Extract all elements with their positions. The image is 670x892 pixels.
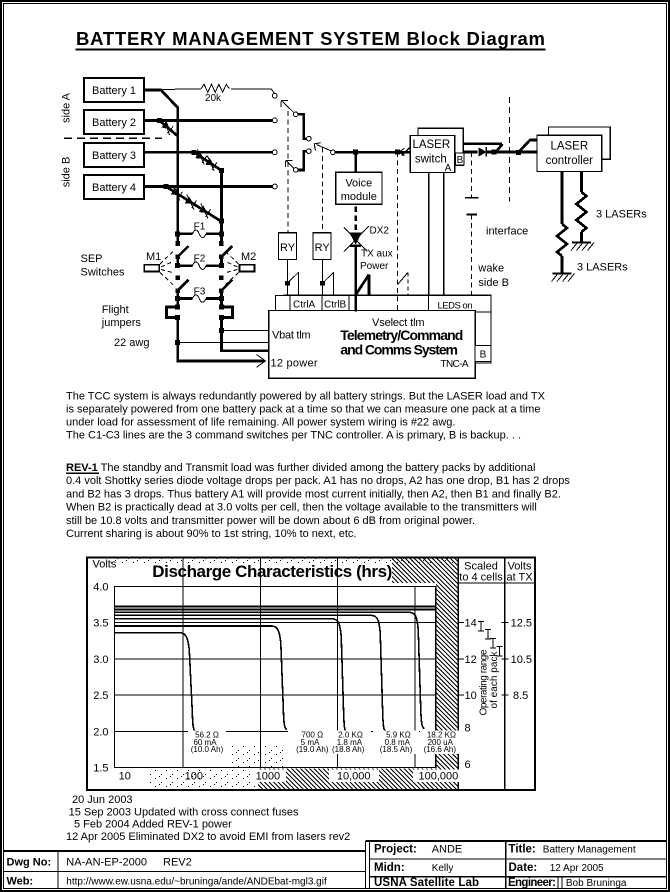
svg-text:2.5: 2.5 [93, 690, 108, 702]
laser resistor left [557, 224, 567, 256]
x label bg 10000 [329, 770, 379, 783]
battery symbol short plate [466, 214, 477, 216]
svg-text:REV-1 The standby and Transmi: REV-1 The standby and Transmit load was … [66, 462, 535, 474]
LASER switch drop line A [428, 173, 430, 296]
right bus segment F2-F3 [220, 290, 223, 299]
label SEP Switches [81, 253, 126, 279]
left table row line [3, 870, 366, 872]
LASER controller front box [537, 135, 602, 171]
chart hatch title band [392, 559, 458, 584]
svg-text:controller: controller [546, 155, 593, 167]
arrowhead 12 power [257, 355, 266, 368]
svg-text:CtrlB: CtrlB [324, 300, 347, 311]
wire battery1 to left bus (diagonal) [161, 90, 178, 108]
wire battery4 out [144, 185, 272, 188]
discharge curve ref2 [115, 609, 436, 611]
chart hatch right band [436, 583, 458, 789]
voice module drop wire [354, 152, 357, 172]
Vselect flag dashed vertical [407, 273, 409, 296]
REV-1 underline [66, 473, 99, 474]
chart speckle bottom band [150, 769, 258, 789]
header Volts at TX [506, 561, 533, 584]
svg-text:still be 10.8 volts and trans: still be 10.8 volts and transmitter powe… [66, 515, 475, 527]
SEP switch left upper [175, 241, 188, 259]
svg-text:2.0: 2.0 [93, 726, 108, 738]
svg-text:RY: RY [315, 242, 331, 254]
right table row line 2 [369, 876, 667, 878]
battery box Battery 3 [84, 143, 144, 167]
right table top line [366, 840, 667, 842]
load label 2.0K [332, 731, 365, 755]
ctrl strip dividers [290, 295, 349, 310]
selector switch SwA blade [283, 102, 294, 113]
chart column divider scaled [457, 558, 459, 791]
output top wire (B path) [463, 142, 502, 145]
resistor 20k wire [161, 89, 275, 94]
svg-text:side B: side B [61, 157, 73, 188]
svg-text:Current sharing is about 90% t: Current sharing is about 90% to 1st stri… [66, 528, 356, 540]
actuator M1 linkage dashes [160, 250, 175, 287]
SEP switch right upper [219, 241, 232, 259]
contact circle battery3 [272, 150, 277, 155]
discharge curve ref1 [115, 606, 436, 608]
scaled tick 12 [458, 658, 464, 660]
LASER switch B tag box [456, 153, 465, 165]
RY1 control dashed line [287, 111, 289, 233]
svg-text:SEP: SEP [81, 253, 103, 265]
voltsTX tick 10.5 [502, 658, 509, 660]
plot gridline h 2.5 [115, 694, 436, 696]
title underline [76, 49, 546, 51]
junction 22awg left [175, 340, 180, 345]
plot gridline v 1000 [259, 559, 261, 768]
plot gridline v 100 [182, 559, 184, 768]
svg-text:NA-AN-EP-2000: NA-AN-EP-2000 [66, 857, 147, 869]
TNC-B shadow box [284, 295, 491, 363]
svg-text:Battery 4: Battery 4 [92, 182, 136, 194]
svg-text:(19.0 Ah): (19.0 Ah) [296, 745, 329, 754]
battery box Battery 2 [84, 110, 144, 134]
scaled tick 14 [458, 622, 464, 624]
SwB output contact circle [307, 149, 312, 154]
left bus segment F2-F3 [176, 290, 179, 299]
laser chain right lower wire [580, 232, 583, 242]
svg-text:Power: Power [360, 261, 389, 272]
svg-text:3 LASERs: 3 LASERs [577, 262, 628, 274]
discharge curve 18.2K [115, 612, 425, 728]
selector switch SwB blade [286, 161, 294, 169]
svg-text:BATTERY MANAGEMENT SYSTEM Bloc: BATTERY MANAGEMENT SYSTEM Block Diagram [76, 28, 545, 49]
svg-text:at TX: at TX [506, 572, 533, 584]
svg-text:Battery 1: Battery 1 [92, 85, 136, 97]
SEP switch left lower [175, 276, 188, 293]
flight jumper left [167, 304, 181, 319]
chart top speckle strip [110, 559, 456, 564]
svg-text:(16.6 Ah): (16.6 Ah) [424, 745, 457, 754]
svg-text:CtrlA: CtrlA [293, 300, 316, 311]
discharge curve 56.2 [115, 633, 197, 732]
svg-text:1000: 1000 [256, 771, 280, 783]
RY2 output wire [322, 259, 324, 295]
wake dashed line [470, 152, 472, 295]
LASER switch drop line B [443, 173, 445, 296]
svg-text:Switches: Switches [81, 267, 126, 279]
svg-text:12 Apr 2005 Eliminated DX2 t: 12 Apr 2005 Eliminated DX2 to avoid EMI … [66, 831, 350, 843]
SwA output contact circle [307, 136, 312, 141]
chart header underline right columns [458, 582, 535, 584]
svg-text:DX2: DX2 [370, 226, 390, 237]
wire battery2 out [144, 119, 272, 122]
svg-text:LASER: LASER [412, 139, 450, 151]
laser resistor right [576, 192, 586, 232]
voltsTX tick 12.5 [502, 622, 509, 624]
svg-text:1.5: 1.5 [93, 763, 108, 775]
right bus vertical [220, 170, 223, 245]
svg-text:20 Jun 2003: 20 Jun 2003 [72, 794, 133, 806]
right bus lower vertical [220, 317, 223, 352]
svg-text:5 Feb 2004 Added REV-1 powe: 5 Feb 2004 Added REV-1 power [74, 819, 232, 831]
fuse F2 [175, 254, 224, 270]
stage2 switch arrowhead [314, 143, 321, 151]
svg-text:Kelly: Kelly [432, 863, 454, 874]
selector switch SwA arrowhead [281, 100, 288, 107]
svg-text:3 LASERs: 3 LASERs [596, 209, 647, 221]
svg-text:22 awg: 22 awg [114, 337, 149, 349]
label LASER controller [546, 141, 593, 168]
contact circle battery2 [272, 118, 277, 123]
load label bg 5.9K [373, 731, 419, 755]
left bus to jumper [176, 299, 179, 308]
right table double left border [366, 841, 370, 889]
svg-text:Volts: Volts [93, 559, 117, 571]
contact circle battery4 [272, 184, 277, 189]
diode branch battery3 to right bus [194, 152, 222, 170]
svg-text:side B: side B [478, 277, 509, 289]
svg-text:12: 12 [465, 654, 477, 666]
discharge curve 2.0K [115, 619, 348, 733]
main select bus [335, 151, 410, 154]
svg-text:side A: side A [61, 92, 73, 123]
svg-text:Battery 3: Battery 3 [92, 150, 136, 162]
actuator M2 linkage dashes [224, 250, 239, 287]
wire battery3 out [144, 151, 272, 154]
svg-text:TNC-A: TNC-A [441, 359, 469, 370]
junction right bus sense [219, 328, 224, 333]
label LASER switch [412, 139, 450, 166]
diode D-B1b [203, 156, 220, 171]
sense wire right bus to TNC Vbat [221, 330, 268, 332]
svg-text:The TCC system is always redun: The TCC system is always redundantly pow… [66, 391, 546, 403]
SEP switch right lower [219, 276, 232, 293]
side A/B dashed divider [64, 137, 162, 139]
chart column divider voltsTX [504, 558, 506, 791]
left bus lower vertical [176, 317, 179, 362]
selector switch SwB pivot [293, 168, 298, 173]
load label bg 18.2K [420, 731, 460, 755]
plot gridline h 3.0 [115, 658, 436, 660]
svg-text:When B2 is practically dead at: When B2 is practically dead at 3.0 volts… [66, 502, 537, 514]
load label 56.2 [191, 731, 224, 755]
junction voice drop [353, 150, 358, 155]
SwA output L-wire [298, 114, 307, 138]
discharge curve 5.9K [115, 615, 387, 731]
svg-text:LASER: LASER [550, 141, 588, 153]
error bar 2 [485, 630, 491, 640]
svg-text:10,000: 10,000 [337, 771, 371, 783]
RY1 output wire [286, 259, 288, 295]
svg-text:Dwg No:: Dwg No: [7, 857, 52, 869]
svg-text:Date:: Date: [509, 862, 538, 874]
svg-text:Title:: Title: [509, 844, 536, 856]
SwB output L-wire [298, 151, 307, 170]
junction right bus B4 [219, 218, 224, 223]
svg-text:14: 14 [465, 618, 477, 630]
diode branch battery2 to left bus [159, 120, 177, 136]
svg-text:Telemetry/Command: Telemetry/Command [340, 327, 463, 343]
svg-text:interface: interface [486, 226, 528, 238]
svg-text:F1: F1 [194, 222, 206, 233]
left bus segment F1-F2 [176, 257, 179, 266]
svg-text:switch: switch [415, 154, 447, 166]
LASER switch front box [410, 136, 455, 173]
fuse F1 [175, 222, 224, 238]
svg-text:100: 100 [185, 771, 203, 783]
LASER switch back box [418, 128, 463, 165]
top wire blade to junction [496, 144, 503, 152]
TNC B tag box [475, 345, 491, 361]
TX aux contact flag [356, 275, 369, 296]
left table column divider [57, 851, 59, 889]
svg-text:and B2 has 3 drops. Thus batt: and B2 has 3 drops. Thus battery A1 will… [66, 488, 561, 500]
svg-text:10: 10 [119, 771, 131, 783]
relay RY2 box [313, 233, 331, 260]
junction battery2 branch [157, 118, 162, 123]
svg-text:jumpers: jumpers [101, 317, 142, 329]
plot frame [115, 587, 436, 768]
left table top line [3, 850, 366, 852]
svg-text:M1: M1 [146, 251, 161, 263]
svg-text:ANDE: ANDE [432, 844, 463, 856]
output main wire [464, 151, 477, 154]
chart outer frame [87, 558, 535, 791]
svg-text:Midn:: Midn: [374, 862, 405, 874]
diode D-B2a [168, 186, 185, 201]
junction controller blade [516, 150, 521, 155]
svg-text:3.0: 3.0 [93, 654, 108, 666]
actuator M2 box [240, 265, 255, 272]
junction vselect [395, 150, 400, 155]
ctrl strip box [276, 295, 429, 310]
load label bg 56.2 [188, 731, 226, 755]
svg-text:REV2: REV2 [163, 857, 192, 869]
svg-text:15 Sep 2003 Updated with cros: 15 Sep 2003 Updated with cross connect f… [69, 806, 299, 818]
svg-text:6: 6 [465, 759, 471, 771]
svg-text:Engineer:: Engineer: [508, 877, 556, 889]
svg-text:wake: wake [477, 263, 504, 275]
diode branch battery4 to right bus [166, 187, 221, 222]
label Voice module [341, 178, 377, 204]
diode D-B1a [193, 149, 210, 164]
load label 700 [296, 731, 329, 755]
scaled tick 10 [458, 694, 464, 696]
laser chain left lower wire [561, 256, 564, 274]
svg-text:Vbat tlm: Vbat tlm [272, 330, 311, 342]
plot gridline v 100000 [414, 587, 416, 768]
junction battery4 branch [164, 184, 169, 189]
label Operating range of each pack (rotated) [479, 649, 501, 715]
svg-text:B: B [457, 155, 464, 166]
svg-text:Operating range: Operating range [479, 649, 490, 715]
svg-text:and Comms System: and Comms System [340, 342, 458, 358]
svg-text:4.0: 4.0 [93, 582, 108, 594]
resistor 20k [201, 84, 229, 92]
fuse F3 [175, 286, 224, 302]
chart speckle mid band [230, 745, 283, 767]
ground right [571, 243, 594, 251]
svg-text:Battery 2: Battery 2 [92, 117, 136, 129]
svg-text:M2: M2 [241, 251, 256, 263]
error bar 1 [478, 622, 484, 632]
plot gridline v 10000 [337, 559, 339, 768]
RY2 control dashed line [322, 148, 324, 233]
svg-text:3.5: 3.5 [93, 618, 108, 630]
svg-text:(18.8 Ah): (18.8 Ah) [332, 745, 365, 754]
voltsTX tick 8.5 [502, 694, 509, 696]
laser chain left wire [561, 172, 564, 225]
svg-text:Voice: Voice [345, 178, 372, 190]
header Scaled to 4 cells [459, 561, 503, 584]
selector switch SwB arrowhead [286, 160, 293, 167]
wire battery1 out [144, 89, 162, 92]
svg-text:http://www.ew.usna.edu/~brunin: http://www.ew.usna.edu/~bruninga/ande/AN… [66, 877, 327, 888]
TX aux power wire [354, 246, 357, 312]
svg-text:USNA Satellite Lab: USNA Satellite Lab [374, 877, 479, 889]
label Flight jumpers [101, 304, 142, 329]
svg-text:A: A [445, 163, 452, 174]
svg-text:F2: F2 [194, 254, 206, 265]
svg-text:module: module [341, 191, 377, 203]
load label 5.9K [380, 731, 413, 755]
plot gridline h 2.0 [115, 730, 436, 732]
selector switch SwA pivot [293, 112, 298, 117]
svg-text:12.5: 12.5 [511, 618, 532, 630]
diode main line [479, 147, 487, 157]
svg-text:The C1-C3 lines are the 3 comm: The C1-C3 lines are the 3 command switch… [66, 430, 521, 442]
svg-text:Bob Bruninga: Bob Bruninga [566, 878, 627, 889]
error bar 4 [496, 647, 502, 657]
svg-text:F3: F3 [194, 286, 206, 297]
DX2 dashed drop [354, 207, 357, 234]
svg-text:of each pack: of each pack [489, 651, 500, 709]
RY2 contact flag [320, 272, 334, 295]
svg-text:Project:: Project: [374, 844, 417, 856]
svg-text:100,000: 100,000 [419, 771, 459, 783]
left bus vertical [176, 107, 179, 245]
load label bg 2.0K [325, 731, 371, 755]
flight jumper right [219, 304, 233, 319]
svg-text:Battery Management: Battery Management [543, 845, 636, 856]
svg-text:8.5: 8.5 [513, 690, 528, 702]
svg-text:10.5: 10.5 [511, 654, 532, 666]
battery box Battery 1 [84, 78, 144, 102]
error bar 3 [490, 639, 496, 649]
stage2 pivot circle [331, 150, 336, 155]
DX2 crossed-out diode [344, 226, 369, 252]
svg-text:0.4 volt Shottky series diode: 0.4 volt Shottky series diode voltage dr… [66, 475, 570, 487]
TNC-A main box [269, 311, 476, 379]
contact circle battery1 [272, 93, 277, 98]
x label bg 1000 [250, 770, 286, 783]
right bus to jumper [220, 299, 223, 308]
svg-text:12 power: 12 power [271, 357, 318, 369]
svg-text:to 4 cells: to 4 cells [459, 572, 503, 584]
engineer cell dividers [558, 877, 562, 889]
svg-text:Flight: Flight [102, 304, 129, 316]
stage2 switch blade [317, 145, 331, 151]
Vselect contact flag [398, 273, 408, 285]
RY1 contact flag [285, 272, 298, 295]
svg-text:(18.5 Ah): (18.5 Ah) [380, 745, 413, 754]
svg-text:under load for assessment of l: under load for assessment of life remain… [66, 417, 455, 429]
laser chain right wire [580, 172, 583, 193]
LEDS cell [429, 295, 491, 312]
diode D-B2b [182, 194, 199, 209]
svg-text:8: 8 [465, 723, 471, 735]
svg-text:Discharge Characteristics (hrs: Discharge Characteristics (hrs) [152, 562, 392, 581]
svg-text:TX aux: TX aux [361, 249, 393, 260]
svg-text:is separately powered from one: is separately powered from one battery p… [66, 404, 540, 416]
power wire left bus to TNC 12 power [177, 360, 265, 363]
wire diode to junction [486, 151, 537, 154]
svg-text:LEDS on: LEDS on [438, 301, 473, 312]
svg-text:Web:: Web: [7, 876, 34, 888]
svg-text:B: B [480, 350, 487, 361]
controller input blade [519, 140, 538, 152]
power wire right bus to TNC [220, 349, 268, 352]
input blade contact [402, 147, 411, 155]
diode D-B2c [196, 203, 213, 218]
voice module box [336, 172, 382, 204]
battery box Battery 4 [84, 175, 144, 199]
battery symbol long plate [465, 197, 479, 199]
svg-text:10: 10 [465, 690, 477, 702]
svg-text:(10.0 Ah): (10.0 Ah) [191, 745, 224, 754]
junction before controller [492, 150, 497, 155]
input arrowhead (left) [399, 148, 405, 155]
actuator M1 box [144, 265, 159, 272]
sense wire left bus to TNC Vbat [178, 341, 269, 343]
Vselect dashed line [397, 152, 399, 311]
right table center divider [505, 841, 507, 889]
junction battery3 branch [191, 150, 196, 155]
svg-text:RY: RY [280, 242, 296, 254]
ground left [552, 274, 575, 282]
right table row line 1 [369, 858, 667, 860]
relay RY1 box [278, 233, 296, 260]
svg-text:12 Apr 2005: 12 Apr 2005 [550, 863, 604, 874]
x label bg 100000 [413, 770, 461, 783]
interface dashed line [508, 97, 510, 202]
plot gridline h 3.5 [115, 622, 436, 624]
chart hatch bottom band [258, 769, 436, 790]
diode D-A2 [159, 119, 176, 135]
LASER controller back box [549, 127, 611, 159]
junction right bus top [219, 168, 224, 173]
discharge curve 700 [115, 626, 288, 730]
right bus segment F1-F2 [220, 257, 223, 266]
load label bg 700 [288, 731, 337, 755]
load label 18.2K [424, 731, 457, 755]
